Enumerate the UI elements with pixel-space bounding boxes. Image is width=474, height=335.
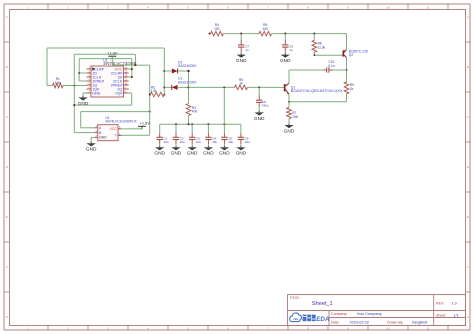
svg-text:11.3k: 11.3k [318,45,326,49]
svg-text:2Q#: 2Q# [115,91,123,95]
svg-text:2023-02-22: 2023-02-22 [350,320,369,324]
svg-text:GND: GND [78,101,89,107]
wire R3 to rail [188,116,190,125]
wire right loop vertical [163,48,165,95]
svg-text:0.1u: 0.1u [328,64,334,68]
wire VCC row [112,64,149,66]
ground C8 [254,111,265,122]
wire C3 bottom lead [191,140,193,147]
svg-text:11: 11 [426,6,429,10]
wire D2 cathode [178,70,188,72]
ground C4 [203,146,214,157]
wire cap rail [160,123,241,125]
svg-text:1u: 1u [245,48,249,52]
svg-text:GND: GND [236,58,247,64]
ground C7 [236,53,247,64]
U1 ground wire [83,93,87,97]
resistor R8 [312,40,326,52]
wire Vctl to rail [223,87,225,124]
svg-text:GND: GND [86,147,97,153]
resistor R5 [235,78,248,90]
IC U3 SN74LVC1G00DPLR NAND gate [94,125,121,141]
ground C9 [280,53,291,64]
svg-text:768: 768 [292,115,298,119]
ground C3 [187,146,198,157]
IC U1 SN74LVC74DBR dual flip-flop [87,66,129,97]
title block grid [288,295,466,326]
wire C8 top lead [258,87,260,100]
ground U1 [78,96,89,107]
resistor R1 [53,77,64,88]
transistor Q1 BC847CW [284,83,289,94]
wire C4 bottom lead [207,140,209,147]
U3 reference label [105,116,137,123]
wire VCC drop [129,59,133,78]
wire U3 VCC to +1.8V [122,126,142,129]
svg-text:Date:: Date: [331,320,340,324]
svg-text:1.0: 1.0 [452,302,457,306]
ground C6 [236,146,247,157]
svg-text:330n: 330n [262,103,269,107]
wire R8 top [313,34,315,41]
sheet text [436,313,459,317]
svg-text:BAS16GWX: BAS16GWX [178,80,197,84]
wire R9 top [346,70,348,82]
svg-text:GND: GND [99,136,107,140]
svg-text:10u: 10u [164,140,169,144]
wire C6 top lead [240,124,242,137]
svg-text:TITLE:: TITLE: [290,296,300,300]
Q2 labels [349,50,368,58]
svg-text:Drawn By:: Drawn By: [387,320,404,324]
resistor R7 [287,107,298,118]
company text [331,312,382,316]
svg-text:10u: 10u [212,140,217,144]
svg-text:Your Company: Your Company [357,312,382,316]
svg-text:A: A [467,15,469,19]
power +1.8V U3 [138,120,150,128]
svg-text:10: 10 [386,327,390,331]
drawnby text [387,320,427,324]
wire C9 bottom lead [284,47,286,54]
resistor R6 [259,23,272,36]
wire C10 row [289,69,347,71]
svg-text:GND: GND [171,151,182,157]
svg-text:+1.8V: +1.8V [140,120,151,125]
wire loop2 [79,59,132,81]
transistor Q2 BC857C,235 [343,49,347,57]
capacitor C8 330n [256,100,269,108]
svg-text:REV:: REV: [436,302,444,306]
wire loop1 [74,54,135,132]
date text [331,320,369,324]
wire diode bus vertical [187,70,189,104]
wire R1 row [47,84,87,86]
svg-text:100: 100 [214,27,220,31]
title text [290,296,333,307]
svg-text:100: 100 [263,27,269,31]
diode D1 BAS16GWX [172,77,197,90]
wire D1 anode [178,86,188,88]
wire Q2 collector down [345,58,347,71]
capacitor C9 1u [282,44,293,52]
svg-text:BC847CW-QBC847CW-QXX: BC847CW-QBC847CW-QXX [291,88,343,93]
svg-text:1.3k: 1.3k [151,89,157,93]
wire R8 to Q2 base [313,52,342,56]
svg-text:E: E [6,215,8,219]
node loop2-1D junction [78,72,86,74]
wire C2 top lead [175,124,177,137]
svg-text:10u: 10u [228,140,233,144]
svg-text:GND: GND [154,151,165,157]
wire C4 top lead [207,124,209,137]
svg-text:+1.8V: +1.8V [107,51,118,56]
wire C6 bottom lead [240,140,242,147]
capacitor C1 10u [157,136,169,144]
svg-text:10u: 10u [196,140,201,144]
wire D2 anode [164,70,172,72]
wire C7 top lead [240,34,242,45]
svg-text:Company:: Company: [331,312,347,316]
U1 reference label [103,59,136,67]
svg-text:1k: 1k [239,81,243,85]
svg-text:A: A [6,15,8,19]
svg-text:GND: GND [203,151,214,157]
svg-text:10u: 10u [180,140,185,144]
wire C9 top lead [284,34,286,45]
wire C1 top lead [159,124,161,137]
wire top rail a [224,33,260,35]
wire Q1 collector up [288,70,290,83]
svg-text:F: F [467,265,469,269]
svg-text:SN74LVC1G00DPLR: SN74LVC1G00DPLR [105,119,137,123]
wire C5 bottom lead [223,140,225,147]
svg-text:10: 10 [386,6,390,10]
svg-text:2k: 2k [350,87,354,91]
wire C8 bottom lead [258,102,260,112]
svg-text:GND: GND [236,151,247,157]
svg-text:GND: GND [284,129,295,135]
resistor R4 [211,23,224,36]
svg-text:GND: GND [254,116,265,122]
rev text [436,302,457,306]
ground C5 [219,146,230,157]
capacitor C10 0.1u [327,60,335,73]
capacitor C4 10u [205,136,217,144]
wire net1 top loop [47,48,164,86]
svg-text:BAS16GWX: BAS16GWX [178,64,197,68]
svg-text:B: B [467,65,469,69]
ground U3 [86,142,97,153]
svg-text:F: F [6,265,8,269]
capacitor C5 10u [221,136,233,144]
svg-text:400: 400 [192,110,198,114]
svg-text:1.5k: 1.5k [55,81,61,85]
capacitor C6 10u [238,136,250,144]
svg-text:Q2: Q2 [349,53,354,57]
svg-text:1u: 1u [289,48,293,52]
wire Q2 emitter rail [346,34,348,50]
resistor R9 [344,82,354,94]
power +1.8V U1 [107,51,118,66]
svg-text:1/1: 1/1 [454,313,459,317]
svg-text:GND: GND [187,151,198,157]
svg-text:Sheet_1: Sheet_1 [312,301,333,307]
svg-text:Sheet:: Sheet: [436,313,446,317]
wire C5 top lead [223,124,225,137]
svg-text:10u: 10u [245,140,250,144]
wire D1 cathode [164,86,172,88]
wire U3 gnd [91,137,94,142]
ground C2 [171,146,182,157]
capacitor C7 1u [238,44,249,52]
capacitor C2 10u [173,136,185,144]
svg-text:EDA: EDA [316,316,330,323]
diode D2 BAS16GWX [172,60,197,73]
wire C1 bottom lead [159,140,161,147]
resistor R3 [186,104,197,116]
svg-text:11: 11 [426,327,429,331]
node R4 input stub [209,33,211,35]
Q1 labels [291,85,343,93]
wire Vctl row [189,86,284,88]
wire R9 bottom row [288,94,347,103]
wire 2Q loop below U1 to U3 B [73,93,131,133]
svg-text:hanglindi: hanglindi [412,320,427,324]
svg-text:GND: GND [219,151,230,157]
resistor R2 [150,86,165,97]
wire C2 bottom lead [175,140,177,147]
svg-text:B: B [6,65,8,69]
ground C1 [154,146,165,157]
svg-text:GND: GND [92,91,101,95]
wire R7 bottom [288,119,290,125]
svg-text:VCC: VCC [110,127,118,131]
svg-text:GND: GND [280,58,291,64]
wire loop below to U3 A [81,111,151,128]
wire C3 top lead [191,124,193,137]
ground R7 [284,124,295,135]
logo JLCEDA [290,313,330,323]
wire Q1 emitter down [288,94,290,107]
svg-text:E: E [467,215,469,219]
wire C7 bottom lead [240,47,242,54]
wire U3Y vertical [122,65,151,135]
wire top rail b [272,33,347,35]
capacitor C3 10u [189,136,201,144]
